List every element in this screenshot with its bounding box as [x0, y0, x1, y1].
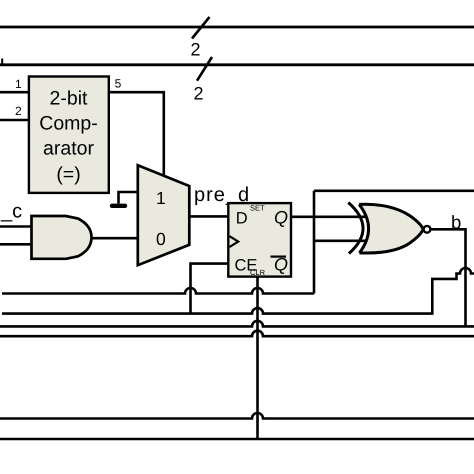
- svg-text:(=): (=): [56, 164, 80, 186]
- xnor gate G2: [348, 203, 430, 254]
- svg-text:arator: arator: [43, 138, 94, 160]
- wire rail3 (with hop over CLR wire): [0, 321, 474, 327]
- wire comparator input 1: [0, 91, 29, 94]
- bus wire net1 (top horizontal bus): [0, 26, 474, 29]
- svg-text:_c: _c: [0, 201, 22, 223]
- wire stub at left edge above net2: [1, 59, 3, 65]
- bus wire net2 (second horizontal bus): [0, 63, 474, 66]
- wire Q feedback rail under flip-flop (with hops over CE and CLR wires): [2, 288, 314, 293]
- bus width slash on net1: [192, 17, 210, 39]
- svg-text:Comp-: Comp-: [39, 113, 98, 135]
- comparator U1 (2-bit Comparator): [29, 77, 109, 193]
- wire XNOR output b (right then down to rail3): [430, 229, 465, 326]
- wire AND output to mux input 0: [92, 237, 138, 240]
- svg-text:5: 5: [115, 76, 122, 90]
- svg-text:Q: Q: [274, 208, 288, 228]
- wire flip-flop CLR input (vertical to bottom rail): [256, 277, 259, 439]
- wire flip-flop CE input: [191, 264, 229, 314]
- svg-text:D: D: [236, 210, 248, 228]
- svg-text:0: 0: [156, 229, 166, 249]
- wire mux input 1 stub: [119, 192, 138, 204]
- mux U2 (2:1 multiplexer): [138, 165, 190, 265]
- wire rail5 (with hop over CLR wire): [0, 413, 474, 419]
- svg-text:2: 2: [194, 84, 204, 104]
- wire comparator input 2: [0, 119, 29, 122]
- svg-text:2: 2: [191, 40, 201, 60]
- flip-flop U3 (FDCE D flip-flop): [228, 203, 291, 277]
- wire mux output pre_d to flip-flop D: [189, 215, 228, 218]
- wire junction vertical at x=314 (Q fanout): [313, 191, 316, 294]
- wire XNOR bottom input from Q: [314, 240, 368, 243]
- ground symbol (constant 0 on mux input 1): [112, 204, 125, 208]
- wire rail4 (with hop over CLR wire): [0, 331, 474, 337]
- wire rail6 (bottom, CLR net): [0, 438, 474, 441]
- wire rail2 (CE net: left edge to right edge with staircase and hop over b): [2, 268, 474, 314]
- svg-text:CLR: CLR: [250, 268, 266, 277]
- svg-text:1: 1: [15, 77, 22, 91]
- svg-text:2: 2: [15, 104, 22, 118]
- wire AND input a: [0, 225, 32, 228]
- wire top feedback rail from Q: [314, 190, 474, 193]
- svg-text:1: 1: [156, 188, 166, 208]
- wire flip-flop Q output to XNOR top input: [291, 216, 372, 219]
- svg-text:SET: SET: [250, 204, 265, 213]
- wire AND input b: [0, 243, 32, 246]
- bus width slash on net2: [197, 57, 212, 81]
- svg-text:2-bit: 2-bit: [50, 87, 89, 109]
- wire comparator output to mux select: [109, 92, 164, 176]
- and-gate G1: [32, 216, 92, 259]
- xnor output bubble: [424, 226, 431, 233]
